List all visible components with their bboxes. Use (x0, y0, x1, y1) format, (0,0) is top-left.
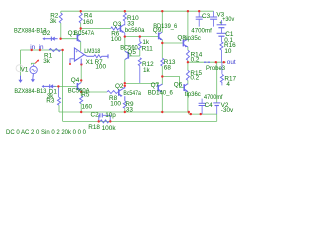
svg-text:C3: C3 (202, 13, 211, 20)
svg-text:tip35c: tip35c (184, 35, 201, 42)
svg-text:Q5: Q5 (127, 49, 136, 56)
svg-text:0.2: 0.2 (191, 57, 200, 64)
svg-text:in: in (39, 44, 44, 51)
svg-text:4700mf: 4700mf (191, 27, 212, 34)
svg-text:+: + (75, 49, 78, 54)
svg-text:100: 100 (95, 64, 106, 71)
svg-text:Q6: Q6 (174, 81, 183, 88)
svg-text:0.2: 0.2 (190, 75, 199, 82)
svg-text:DC 0 AC 2 0 Sin 0 2 20k 0 0 0: DC 0 AC 2 0 Sin 0 2 20k 0 0 0 (6, 130, 87, 136)
svg-text:100: 100 (110, 101, 121, 108)
svg-text:V1: V1 (21, 66, 29, 73)
svg-text:100: 100 (111, 36, 122, 43)
svg-text:10: 10 (224, 48, 232, 55)
svg-text:R11: R11 (142, 45, 154, 52)
svg-text:Bc547a: Bc547a (123, 90, 141, 97)
svg-text:in: in (30, 44, 35, 51)
svg-text:3k: 3k (50, 18, 58, 25)
svg-text:68: 68 (164, 64, 172, 71)
svg-text:bc560a: bc560a (125, 27, 145, 34)
svg-text:C4: C4 (205, 102, 214, 109)
svg-text:4: 4 (226, 81, 230, 88)
svg-text:+30v: +30v (222, 16, 235, 23)
svg-text:X1: X1 (86, 59, 94, 66)
svg-text:R5: R5 (81, 91, 90, 98)
svg-text:4700mf: 4700mf (204, 94, 223, 101)
svg-text:100k: 100k (102, 125, 117, 132)
svg-text:160: 160 (83, 19, 94, 26)
svg-text:Q4: Q4 (71, 77, 80, 84)
svg-text:1k: 1k (143, 67, 151, 74)
svg-text:R3: R3 (46, 98, 55, 105)
svg-text:BD140_6: BD140_6 (148, 89, 173, 96)
svg-text:10p: 10p (105, 112, 116, 119)
svg-text:LM318: LM318 (84, 48, 101, 55)
svg-text:R4: R4 (84, 13, 93, 20)
svg-text:D2: D2 (42, 30, 51, 37)
svg-text:BZX884-B13: BZX884-B13 (14, 88, 46, 95)
svg-text:Q7: Q7 (151, 82, 160, 89)
svg-text:out: out (227, 59, 236, 66)
svg-text:Q2: Q2 (115, 83, 124, 90)
svg-text:C2: C2 (91, 111, 100, 118)
svg-text:33: 33 (126, 107, 134, 114)
svg-text:-30v: -30v (221, 107, 234, 114)
svg-text:tip36c: tip36c (185, 91, 201, 98)
svg-text:Q9: Q9 (153, 27, 162, 34)
svg-text:160: 160 (82, 103, 93, 110)
svg-text:3k: 3k (43, 58, 51, 65)
svg-text:BC547A: BC547A (74, 30, 95, 37)
svg-text:Q3: Q3 (113, 21, 122, 28)
svg-text:R18: R18 (88, 124, 100, 131)
svg-text:Probe3: Probe3 (206, 65, 225, 72)
